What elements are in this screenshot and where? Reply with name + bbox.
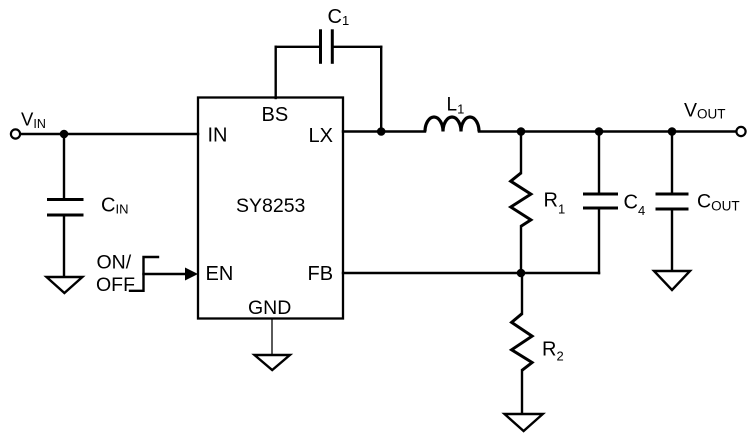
resistor R2 — [512, 314, 532, 371]
wire C4 top — [598, 132, 600, 194]
wire FB net — [343, 272, 599, 274]
ground (R2) — [505, 414, 543, 431]
capacitor COUT — [656, 194, 689, 209]
wire C1 left — [276, 46, 320, 48]
svg-text:OFF: OFF — [96, 274, 135, 296]
wire R1 top — [520, 132, 522, 174]
wire R2 top — [521, 273, 523, 314]
svg-text:IN: IN — [208, 125, 228, 147]
svg-text:C4: C4 — [624, 192, 646, 219]
resistor R1 — [511, 173, 531, 226]
wire COUT top — [671, 132, 673, 193]
wire C4 bottom — [598, 210, 600, 274]
terminal VIN — [11, 129, 20, 138]
arrowhead EN — [185, 268, 198, 281]
wire COUT bottom to ground — [671, 211, 673, 272]
svg-text:EN: EN — [206, 263, 234, 285]
svg-text:CIN: CIN — [101, 195, 128, 217]
wire VIN input to IN pin — [21, 133, 199, 135]
wire LX to L1 — [343, 130, 425, 132]
wire R1 bottom — [520, 226, 522, 273]
svg-text:SY8253: SY8253 — [236, 195, 305, 217]
node FB/R2 junction — [517, 269, 526, 278]
wire R2 bottom to ground — [521, 370, 523, 414]
node LX/C1 junction — [377, 127, 386, 136]
terminal VOUT — [736, 127, 745, 136]
svg-text:VOUT: VOUT — [684, 100, 726, 122]
svg-text:VIN: VIN — [21, 108, 46, 131]
inductor L1 — [425, 117, 479, 131]
wire C1 right — [334, 46, 382, 48]
svg-text:FB: FB — [308, 263, 334, 285]
svg-text:BS: BS — [262, 104, 289, 126]
ground (CIN) — [47, 277, 83, 293]
node VIN junction — [60, 130, 69, 139]
wire GND stem — [271, 319, 273, 355]
wire EN arrow line — [144, 273, 187, 275]
capacitor C4 — [583, 194, 618, 208]
svg-text:C1: C1 — [328, 6, 350, 28]
capacitor CIN — [47, 200, 84, 216]
wire BS vertical — [275, 47, 277, 98]
svg-text:R1: R1 — [544, 190, 566, 217]
wire CIN top — [63, 134, 65, 199]
wire C1 down to LX net — [380, 47, 382, 132]
ground (COUT) — [654, 271, 690, 290]
svg-text:GND: GND — [248, 297, 291, 319]
wire ON/OFF step symbol — [130, 257, 158, 291]
svg-text:COUT: COUT — [697, 191, 740, 214]
capacitor C1 — [321, 29, 333, 64]
wire CIN bottom to ground — [63, 216, 65, 277]
node output/R1 junction — [517, 127, 526, 136]
svg-text:LX: LX — [309, 125, 333, 147]
wire L1 to VOUT terminal — [479, 130, 737, 132]
ground (IC GND) — [255, 355, 290, 370]
svg-text:R2: R2 — [542, 339, 564, 364]
svg-text:ON/: ON/ — [97, 251, 132, 273]
node output/C4 junction — [595, 127, 604, 136]
node output/COUT junction — [668, 127, 677, 136]
svg-text:L1: L1 — [447, 95, 465, 117]
ic U1 SY8253 box — [198, 98, 343, 319]
